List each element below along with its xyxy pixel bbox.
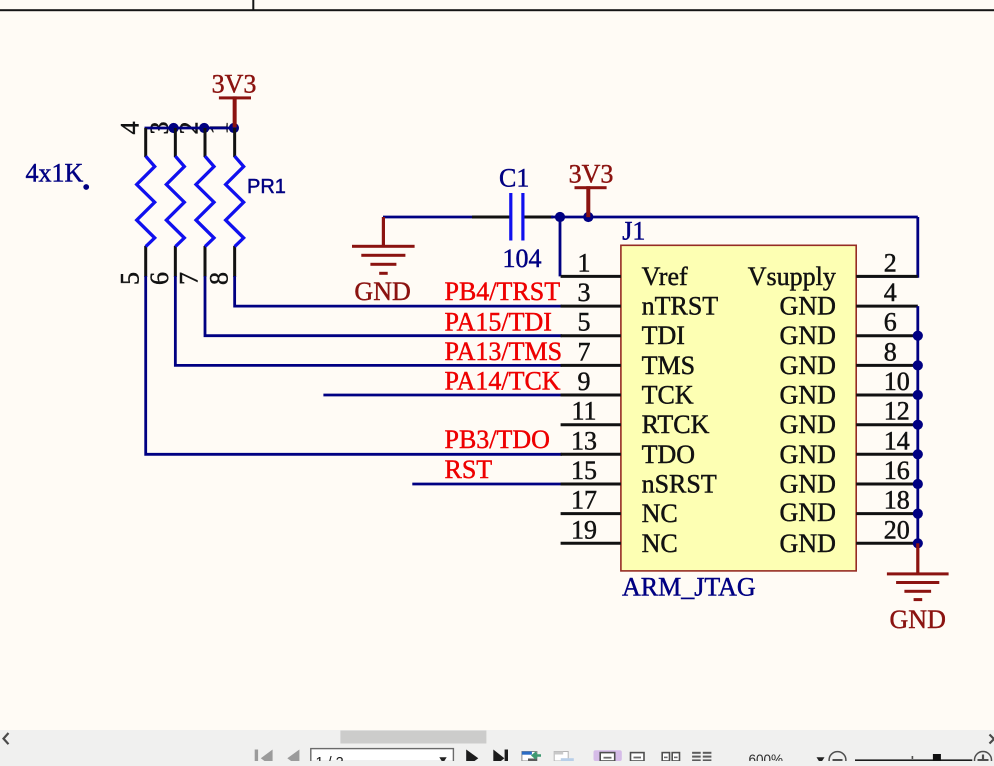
svg-text:17: 17 bbox=[571, 486, 597, 515]
svg-text:TDI: TDI bbox=[642, 321, 685, 350]
svg-text:4: 4 bbox=[116, 122, 145, 135]
svg-text:6: 6 bbox=[884, 308, 897, 337]
svg-text:5: 5 bbox=[578, 308, 591, 337]
svg-text:PA15/TDI: PA15/TDI bbox=[445, 307, 552, 336]
svg-text:GND: GND bbox=[780, 292, 836, 321]
svg-text:104: 104 bbox=[503, 244, 542, 273]
svg-text:13: 13 bbox=[571, 426, 597, 455]
svg-text:20: 20 bbox=[884, 515, 910, 544]
svg-text:nTRST: nTRST bbox=[642, 292, 719, 321]
svg-text:PB3/TDO: PB3/TDO bbox=[445, 425, 550, 454]
svg-text:RST: RST bbox=[445, 455, 493, 484]
svg-text:600%: 600% bbox=[749, 752, 784, 761]
svg-text:PA14/TCK: PA14/TCK bbox=[445, 367, 561, 396]
svg-text:ARM_JTAG: ARM_JTAG bbox=[622, 573, 756, 602]
svg-text:8: 8 bbox=[204, 272, 233, 285]
svg-text:11: 11 bbox=[571, 397, 596, 426]
svg-text:12: 12 bbox=[884, 397, 910, 426]
svg-text:GND: GND bbox=[780, 381, 836, 410]
svg-text:PA13/TMS: PA13/TMS bbox=[445, 337, 563, 366]
svg-text:GND: GND bbox=[780, 351, 836, 380]
svg-text:6: 6 bbox=[145, 272, 174, 285]
svg-text:GND: GND bbox=[780, 529, 836, 558]
svg-text:NC: NC bbox=[642, 529, 678, 558]
svg-text:GND: GND bbox=[780, 498, 836, 527]
svg-text:1 / 2: 1 / 2 bbox=[316, 755, 344, 761]
svg-text:NC: NC bbox=[642, 499, 678, 528]
svg-text:7: 7 bbox=[578, 337, 591, 366]
svg-text:C1: C1 bbox=[499, 164, 529, 193]
svg-text:J1: J1 bbox=[622, 216, 645, 245]
svg-text:14: 14 bbox=[884, 426, 910, 455]
svg-text:10: 10 bbox=[884, 367, 910, 396]
svg-text:16: 16 bbox=[884, 456, 910, 485]
svg-text:3: 3 bbox=[578, 278, 591, 307]
svg-text:4: 4 bbox=[884, 278, 897, 307]
svg-text:2: 2 bbox=[884, 248, 897, 277]
svg-text:3V3: 3V3 bbox=[569, 160, 614, 189]
svg-text:GND: GND bbox=[780, 440, 836, 469]
svg-text:GND: GND bbox=[354, 277, 410, 306]
svg-text:19: 19 bbox=[571, 515, 597, 544]
svg-text:TCK: TCK bbox=[642, 381, 694, 410]
svg-text:RTCK: RTCK bbox=[642, 410, 710, 439]
svg-text:7: 7 bbox=[175, 272, 204, 285]
svg-text:TMS: TMS bbox=[642, 351, 695, 380]
svg-text:GND: GND bbox=[780, 410, 836, 439]
svg-text:PR1: PR1 bbox=[247, 176, 286, 198]
svg-text:15: 15 bbox=[571, 456, 597, 485]
svg-text:8: 8 bbox=[884, 337, 897, 366]
svg-text:GND: GND bbox=[890, 605, 946, 634]
svg-text:nSRST: nSRST bbox=[642, 470, 717, 499]
svg-text:GND: GND bbox=[780, 321, 836, 350]
svg-text:4x1K: 4x1K bbox=[26, 159, 84, 188]
svg-text:3V3: 3V3 bbox=[212, 70, 257, 99]
svg-text:1: 1 bbox=[578, 248, 591, 277]
svg-text:Vref: Vref bbox=[642, 262, 688, 291]
svg-text:18: 18 bbox=[884, 486, 910, 515]
svg-text:GND: GND bbox=[780, 470, 836, 499]
svg-text:TDO: TDO bbox=[642, 440, 695, 469]
svg-text:Vsupply: Vsupply bbox=[748, 262, 836, 291]
svg-text:9: 9 bbox=[578, 367, 591, 396]
svg-text:PB4/TRST: PB4/TRST bbox=[445, 277, 561, 306]
svg-text:5: 5 bbox=[116, 272, 145, 285]
